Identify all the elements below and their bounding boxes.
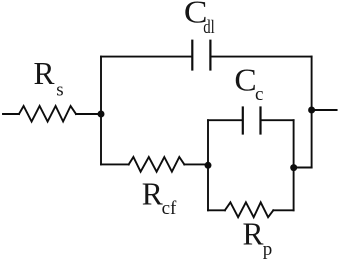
svg-text:s: s [56, 80, 63, 101]
svg-text:p: p [263, 239, 273, 260]
svg-text:R: R [34, 56, 55, 91]
svg-text:C: C [234, 63, 256, 98]
svg-text:cf: cf [162, 198, 177, 219]
svg-text:R: R [243, 217, 264, 252]
svg-text:c: c [255, 84, 263, 105]
svg-text:dl: dl [203, 17, 215, 38]
svg-text:R: R [142, 176, 163, 211]
